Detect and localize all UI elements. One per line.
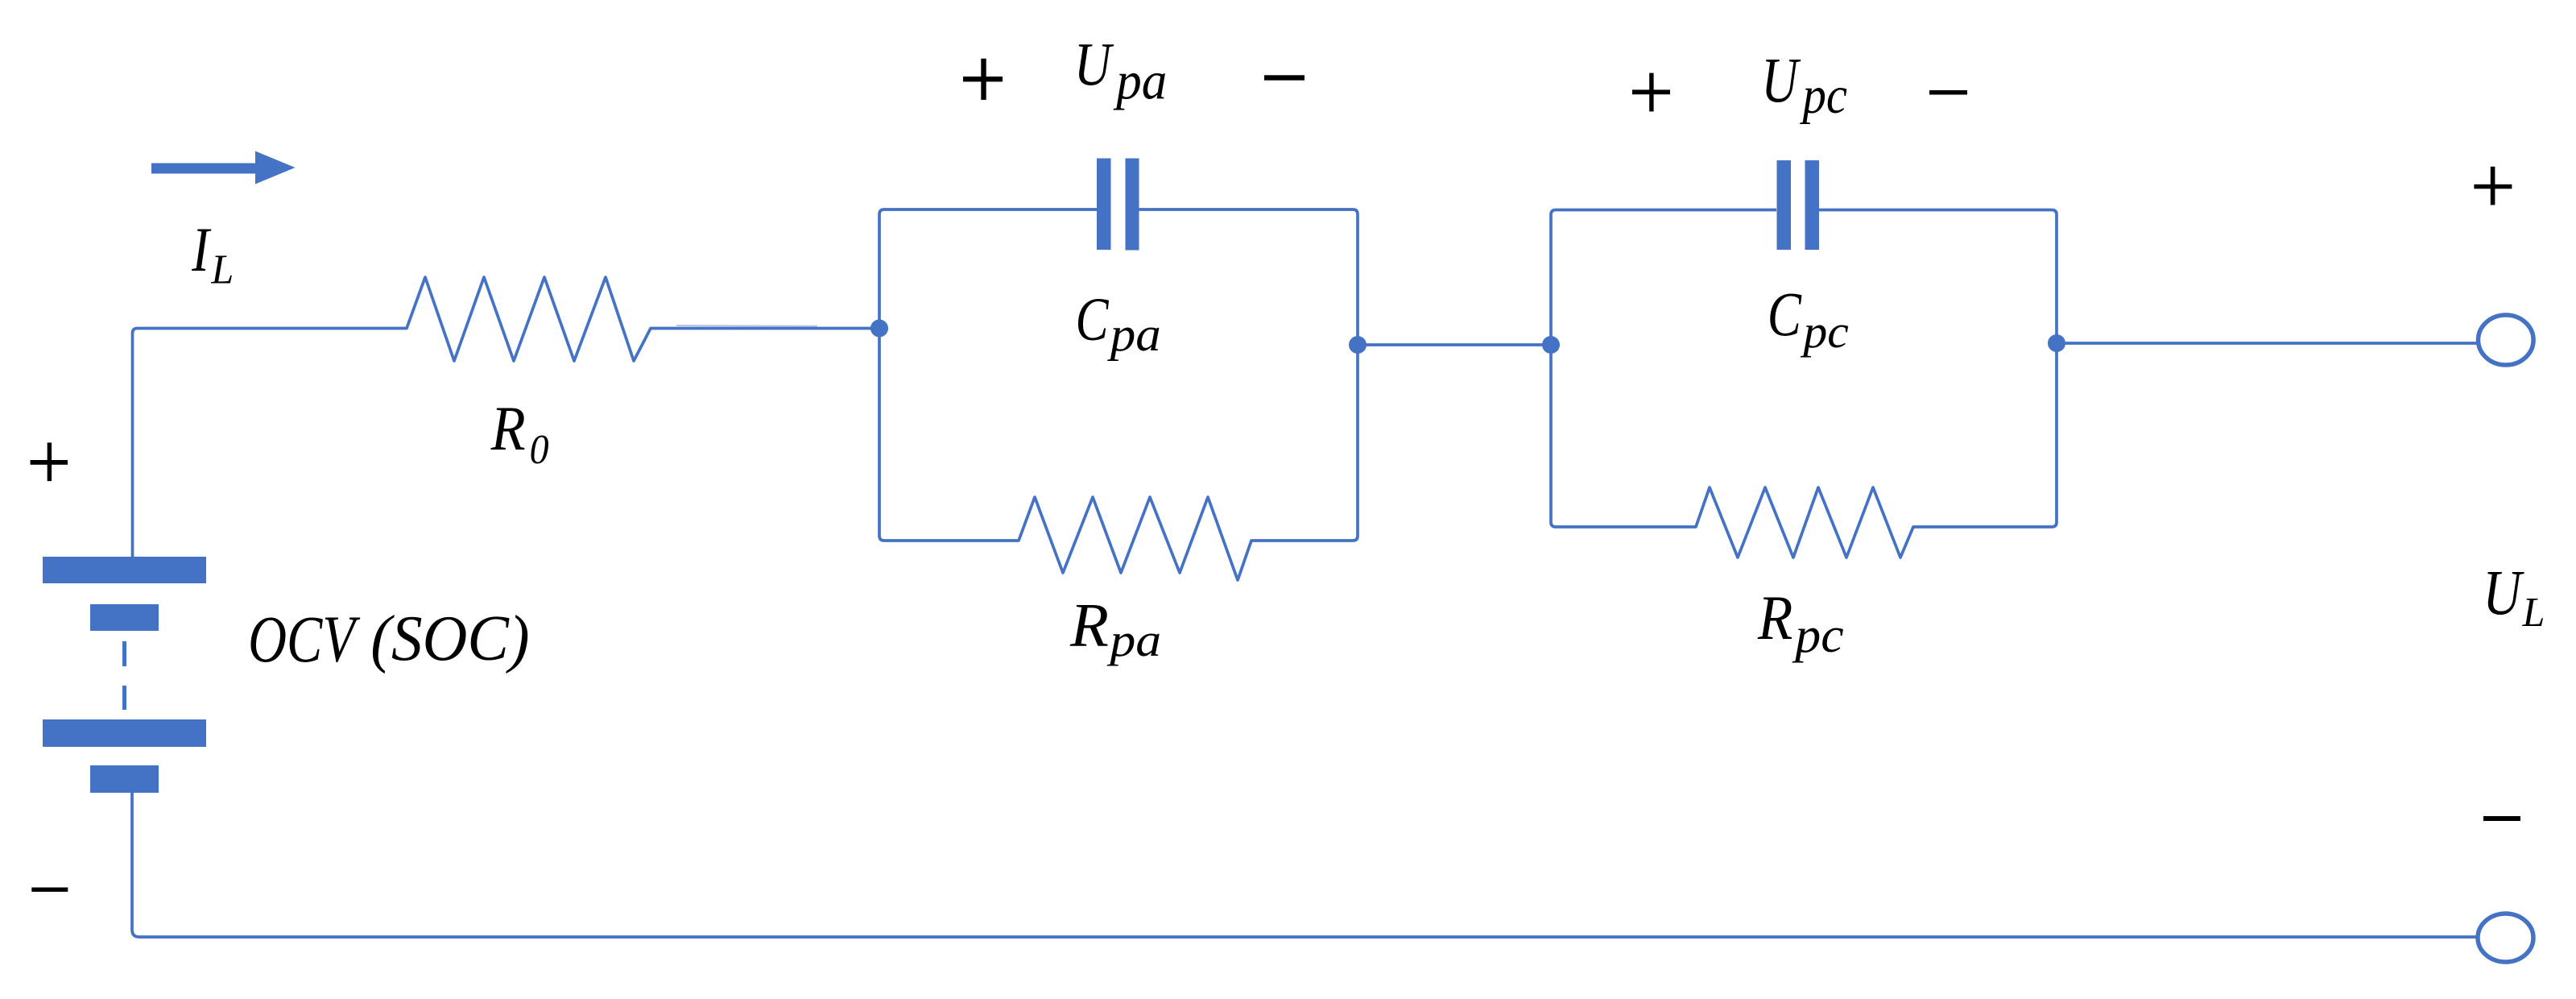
svg-text:C: C (1768, 281, 1802, 350)
svg-text:R: R (1069, 591, 1109, 659)
svg-text:U: U (1761, 45, 1801, 115)
svg-text:C: C (1076, 285, 1110, 354)
svg-text:pc: pc (1800, 306, 1848, 358)
svg-text:pa: pa (1106, 616, 1161, 667)
svg-text:pa: pa (1107, 308, 1161, 361)
svg-text:L: L (211, 247, 234, 293)
svg-text:0: 0 (530, 425, 549, 472)
svg-text:OCV: OCV (248, 603, 361, 677)
svg-text:R: R (1757, 584, 1792, 653)
svg-text:R: R (490, 395, 526, 464)
svg-text:U: U (1074, 31, 1114, 98)
svg-text:U: U (2483, 557, 2524, 628)
svg-text:L: L (2522, 590, 2545, 636)
svg-text:pa: pa (1113, 52, 1167, 111)
svg-text:pc: pc (1800, 65, 1847, 125)
svg-text:I: I (191, 214, 211, 284)
svg-text:pc: pc (1792, 607, 1843, 663)
svg-text:(SOC): (SOC) (370, 603, 529, 675)
